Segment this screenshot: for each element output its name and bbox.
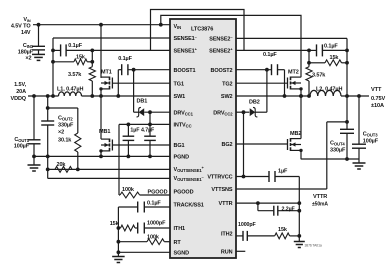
svg-text:15k: 15k (110, 221, 120, 227)
svg-text:SGND: SGND (174, 250, 190, 256)
svg-text:SENSE1–: SENSE1– (174, 34, 198, 42)
svg-text:SENSE2–: SENSE2– (209, 35, 233, 43)
svg-text:1µF: 1µF (278, 169, 288, 175)
svg-text:VTTR: VTTR (219, 201, 233, 207)
svg-text:ITH1: ITH1 (174, 226, 186, 232)
svg-text:SENSE1+: SENSE1+ (174, 47, 198, 55)
svg-text:100k: 100k (147, 235, 160, 241)
svg-text:PGOOD: PGOOD (148, 189, 168, 195)
svg-text:0.1µF: 0.1µF (263, 52, 277, 58)
svg-text:PGOOD: PGOOD (174, 190, 194, 196)
svg-text:15k: 15k (76, 55, 86, 61)
svg-text:×2: ×2 (58, 130, 64, 136)
svg-text:DRVCC2: DRVCC2 (213, 110, 233, 116)
svg-text:MT1: MT1 (101, 70, 112, 76)
svg-text:330µF: 330µF (58, 123, 74, 129)
svg-text:1.5V,: 1.5V, (14, 82, 26, 88)
svg-text:3.57k: 3.57k (312, 73, 326, 79)
svg-text:100µF: 100µF (14, 144, 30, 150)
svg-text:VTTR: VTTR (313, 194, 327, 200)
svg-text:±50mA: ±50mA (312, 202, 328, 208)
svg-text:0.1µF: 0.1µF (324, 44, 338, 50)
svg-text:BG1: BG1 (174, 143, 185, 149)
svg-text:0.75V: 0.75V (371, 96, 385, 102)
svg-text:4.5V TO: 4.5V TO (11, 24, 32, 30)
svg-text:14V: 14V (21, 30, 31, 36)
svg-text:SENSE2+: SENSE2+ (209, 47, 233, 55)
svg-text:VTTRVCC: VTTRVCC (207, 175, 232, 181)
svg-text:TRACK/SS1: TRACK/SS1 (174, 203, 204, 209)
svg-text:RUN: RUN (221, 249, 233, 255)
svg-text:BOOST2: BOOST2 (210, 68, 232, 74)
svg-text:100µF: 100µF (363, 139, 379, 145)
svg-text:INTVCC: INTVCC (174, 123, 192, 129)
svg-text:VTTSNS: VTTSNS (211, 187, 233, 193)
svg-text:2.2µF: 2.2µF (282, 207, 296, 213)
svg-text:VTT: VTT (371, 87, 382, 93)
svg-text:20k: 20k (57, 162, 67, 168)
svg-text:CIN1: CIN1 (23, 43, 34, 49)
svg-text:L2, 0.47µH: L2, 0.47µH (316, 87, 342, 93)
svg-text:3876 TA01a: 3876 TA01a (305, 244, 322, 248)
svg-text:PGND: PGND (174, 155, 190, 161)
svg-text:1000pF: 1000pF (238, 222, 257, 228)
svg-text:BG2: BG2 (221, 142, 232, 148)
svg-text:MT2: MT2 (288, 70, 299, 76)
svg-text:30.1k: 30.1k (58, 138, 72, 144)
svg-text:×2: ×2 (25, 56, 31, 62)
svg-text:TG1: TG1 (174, 81, 184, 87)
svg-text:0.1µF: 0.1µF (68, 43, 82, 49)
svg-text:1000pF: 1000pF (147, 221, 166, 227)
svg-text:MB2: MB2 (290, 131, 301, 137)
svg-text:15k: 15k (330, 55, 340, 61)
svg-text:RT: RT (174, 240, 182, 246)
svg-text:L1, 0.47µH: L1, 0.47µH (57, 87, 83, 93)
svg-text:SW1: SW1 (174, 94, 186, 100)
svg-text:COUT3: COUT3 (363, 132, 378, 138)
svg-text:LTC3876: LTC3876 (191, 27, 213, 33)
svg-text:4.7µF: 4.7µF (141, 128, 155, 134)
svg-text:DB1: DB1 (137, 99, 148, 105)
svg-text:TG2: TG2 (222, 81, 232, 87)
svg-text:±10A: ±10A (371, 103, 384, 109)
svg-text:VDDQ: VDDQ (11, 96, 27, 102)
svg-text:100k: 100k (122, 187, 135, 193)
svg-text:1µF: 1µF (130, 128, 140, 134)
svg-text:15k: 15k (278, 227, 288, 233)
svg-text:VIN: VIN (174, 24, 182, 30)
svg-text:DB2: DB2 (249, 99, 260, 105)
svg-text:330µF: 330µF (330, 148, 346, 154)
svg-text:ITH2: ITH2 (221, 232, 233, 238)
svg-text:BOOST1: BOOST1 (174, 68, 196, 74)
svg-text:DRVCC1: DRVCC1 (174, 110, 194, 116)
svg-text:20A: 20A (16, 89, 26, 95)
svg-text:3.57k: 3.57k (68, 72, 82, 78)
svg-text:COUT2: COUT2 (58, 116, 73, 122)
svg-text:0.1µF: 0.1µF (118, 56, 132, 62)
svg-text:COUT4: COUT4 (330, 141, 345, 147)
svg-text:SW2: SW2 (221, 94, 233, 100)
svg-text:0.1µF: 0.1µF (147, 200, 161, 206)
svg-text:COUT1: COUT1 (14, 137, 29, 143)
